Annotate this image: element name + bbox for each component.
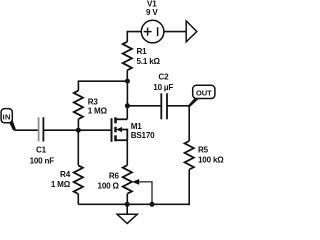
wire R5 bottom to rail [188,170,189,205]
svg-text:9 V: 9 V [146,8,158,17]
svg-text:R5: R5 [198,146,209,155]
label R6 100 Ohm [98,171,120,190]
svg-text:10 µF: 10 µF [153,83,173,92]
node OUT flag [188,85,215,107]
wire R6 bottom to rail [126,194,128,205]
node A junction dot [125,79,130,84]
svg-text:R3: R3 [88,97,99,106]
node B junction dot (drain node) [125,103,130,108]
capacitor C1 right plate [42,117,44,141]
resistor R3 [74,91,83,120]
wire V1 minus to ground [164,31,186,33]
wire R4 bottom to rail [77,194,79,204]
label C2 10 uF [153,73,173,93]
node C junction dot (gate node) [76,128,81,133]
label V1 value 9 V [146,0,158,17]
label R4 1 MOhm [51,170,71,189]
rail junction dot at wiper return [150,202,155,207]
wire R1 bottom to node A [126,70,128,81]
wire V1 plus to R1 top [127,32,141,42]
wire node A down to node B [126,81,128,106]
ground (right of V1, rotated) [186,21,197,42]
ground stem [126,204,128,214]
wire M1 source down to R6 [126,140,128,165]
wire IN to C1 [15,129,39,131]
wire node B to C2 [127,105,160,107]
wire R4 top from node C [77,130,79,165]
svg-text:BS170: BS170 [131,131,155,140]
wire M1 drain up to node B [126,106,128,120]
resistor R4 [74,165,83,194]
svg-text:100 nF: 100 nF [30,157,55,166]
rail junction dot at R6 [125,202,130,207]
label C1 100 nF [30,146,55,166]
ground rail wire [78,203,189,205]
resistor R1 [123,42,132,70]
voltage source V1 [141,20,164,43]
svg-text:C2: C2 [158,73,169,82]
wire R3 bottom to node C [77,119,79,130]
wire node C to M1 gate [78,129,111,131]
svg-text:R6: R6 [109,171,120,180]
R6 wiper arrow [138,182,153,204]
M1 body arrow head [116,127,122,132]
svg-text:100 kΩ: 100 kΩ [198,155,224,164]
svg-text:1 MΩ: 1 MΩ [88,107,108,116]
svg-text:R1: R1 [137,47,148,56]
capacitor C2 [161,93,167,119]
capacitor C1 left plate [38,117,40,141]
resistor R5 [185,141,194,170]
svg-text:OUT: OUT [196,88,212,97]
ground (bottom) [117,214,137,223]
wire C1 to node C [43,129,78,131]
svg-text:IN: IN [3,113,11,122]
wire C2 to OUT node [167,105,189,107]
node IN flag [1,109,16,131]
svg-text:1 MΩ: 1 MΩ [51,180,71,189]
wire OUT node down to R5 [188,106,190,141]
svg-text:R4: R4 [60,170,71,179]
svg-text:100 Ω: 100 Ω [98,181,120,190]
transistor M1 (BS170 N-MOSFET) [112,117,128,142]
svg-text:C1: C1 [36,146,47,155]
wire node A to R3 top [78,81,127,90]
svg-text:5.1 kΩ: 5.1 kΩ [137,57,161,66]
potentiometer R6 [123,165,132,194]
svg-text:M1: M1 [131,122,143,131]
